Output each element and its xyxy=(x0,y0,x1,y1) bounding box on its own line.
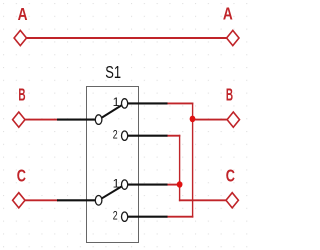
svg-text:A: A xyxy=(223,3,233,23)
svg-text:C: C xyxy=(226,165,235,185)
svg-text:B: B xyxy=(226,85,233,105)
svg-text:S1: S1 xyxy=(105,62,121,82)
svg-text:2: 2 xyxy=(113,209,118,223)
svg-text:A: A xyxy=(18,4,28,24)
svg-text:1: 1 xyxy=(113,95,120,109)
svg-text:1: 1 xyxy=(113,176,120,190)
svg-text:B: B xyxy=(18,85,25,105)
svg-text:2: 2 xyxy=(113,128,118,142)
svg-text:C: C xyxy=(17,165,26,185)
